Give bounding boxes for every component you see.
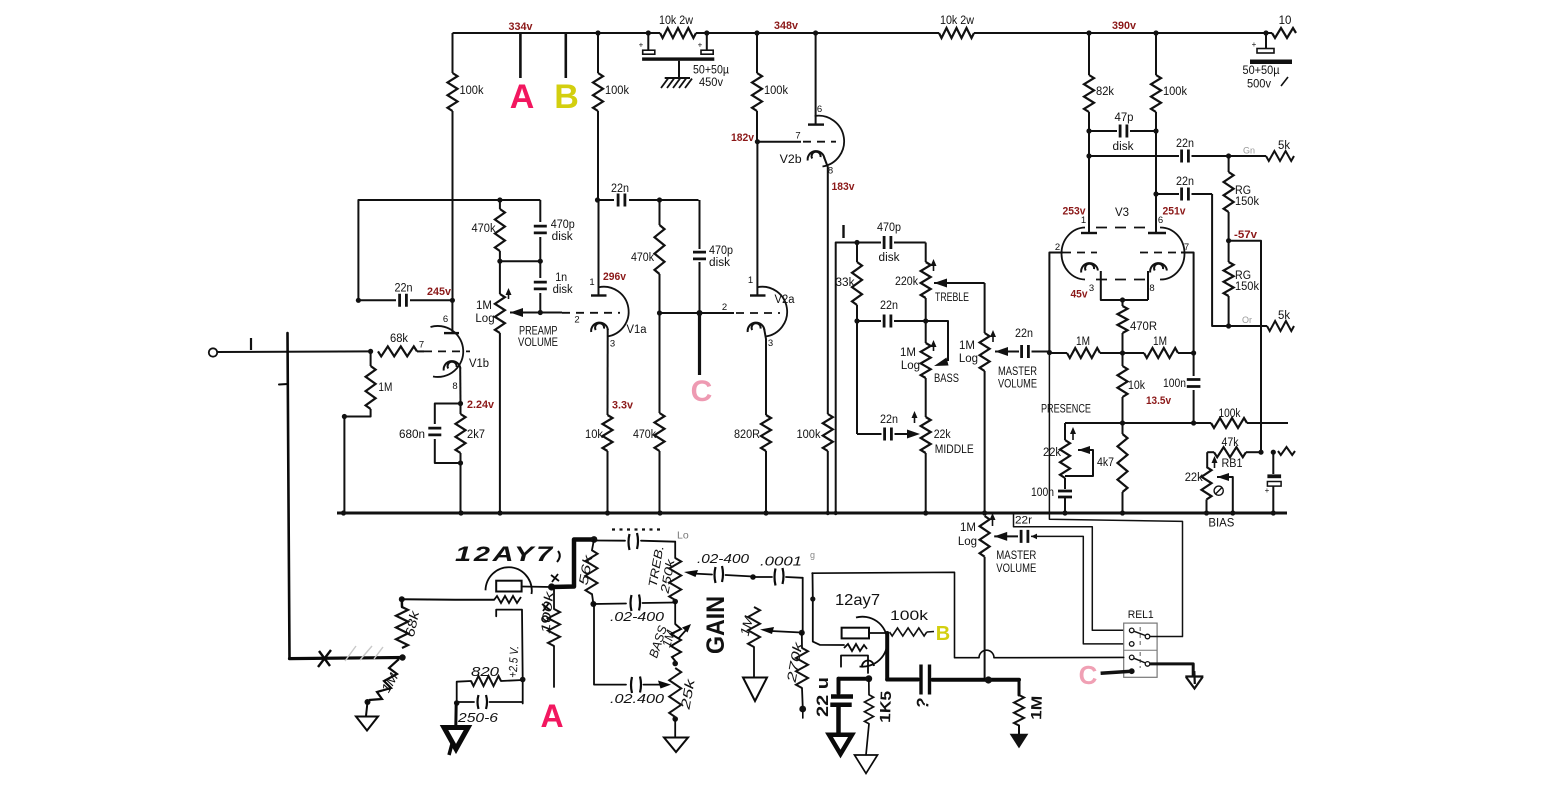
wire grid (hand): [402, 598, 494, 601]
wire treble wiper to MV: [984, 283, 986, 333]
svg-text:470p: 470p: [709, 245, 733, 257]
resistor 100k output (hand): [890, 628, 927, 636]
potentiometer 22k PRESENCE: [1064, 423, 1066, 440]
svg-text:GAIN: GAIN: [702, 596, 730, 654]
ground (hand open) gain: [753, 647, 755, 677]
wiper MV lower: [994, 532, 1007, 541]
ground (open) 1K5: [855, 755, 878, 773]
svg-text:2: 2: [1055, 242, 1060, 253]
svg-text:100k: 100k: [764, 85, 788, 97]
wire plate-feedback loop: [358, 200, 540, 300]
svg-text:1n: 1n: [555, 272, 567, 284]
svg-text:PRESENCE: PRESENCE: [1041, 404, 1091, 416]
svg-text:251v: 251v: [1163, 206, 1187, 218]
bus junction dots: [341, 510, 346, 515]
triode V3b plate: [1148, 232, 1166, 234]
node: [591, 536, 598, 543]
triode V3b cathode: [1150, 263, 1167, 272]
resistor 10k 2w (third, cut at edge): [1272, 28, 1296, 38]
svg-text:470p: 470p: [551, 219, 575, 231]
node: [1047, 350, 1052, 355]
svg-text:B: B: [936, 623, 950, 645]
potentiometer 25k (hand): [669, 668, 681, 717]
wiper MV: [995, 347, 1008, 356]
svg-text:MIDDLE: MIDDLE: [935, 444, 974, 456]
dotted label remnant: [612, 528, 664, 530]
svg-text:.02-400: .02-400: [610, 610, 664, 624]
jack contact tick: [250, 338, 252, 350]
node: [1120, 350, 1125, 355]
svg-text:470p: 470p: [877, 222, 901, 234]
node: [365, 699, 371, 705]
svg-text:1M: 1M: [378, 382, 392, 394]
capacitor .02-400 bass (hand): [631, 595, 641, 612]
wire: [836, 242, 881, 244]
resistor 270k (hand): [801, 633, 803, 648]
triode V2b envelope: [815, 116, 845, 167]
svg-text:100k: 100k: [605, 85, 629, 97]
capacitor 22n bass: [857, 320, 881, 322]
scribble mark: [318, 650, 331, 667]
wire -57v to bias feed: [1229, 241, 1261, 453]
svg-text:348v: 348v: [774, 20, 799, 32]
cathode bracket (hand): [496, 610, 521, 617]
wiper treble (hand): [684, 570, 698, 577]
triode V3a plate: [1081, 232, 1097, 234]
wire: [435, 404, 461, 425]
wire relay lower contact to ground: [1150, 664, 1193, 676]
svg-text:47p: 47p: [1115, 112, 1134, 124]
node: [672, 716, 678, 722]
wire: [659, 451, 661, 513]
node: [854, 240, 859, 245]
svg-text:50+50µ: 50+50µ: [693, 65, 729, 77]
node: [750, 574, 756, 580]
svg-text:V1b: V1b: [469, 358, 489, 370]
svg-text:disk: disk: [709, 257, 730, 269]
svg-text:+: +: [639, 41, 644, 50]
svg-text:disk: disk: [552, 231, 573, 243]
svg-text:2: 2: [574, 315, 579, 326]
svg-text:22n: 22n: [1176, 176, 1194, 188]
resistor 2k7: [456, 414, 466, 453]
wiper presence: [1078, 446, 1090, 454]
svg-text:-57v: -57v: [1234, 229, 1258, 241]
resistor 82k: [1086, 30, 1091, 35]
svg-text:.02-400: .02-400: [697, 551, 750, 566]
svg-text:5k: 5k: [1278, 310, 1290, 322]
svg-text:2.24v: 2.24v: [467, 399, 495, 411]
svg-text:250-6: 250-6: [457, 711, 498, 725]
node (hand blob): [548, 583, 555, 590]
capacitor 50+50u 450v right section lead: [704, 30, 709, 35]
triode 12ay7 envelope (hand): [856, 617, 887, 667]
wire input: [217, 350, 371, 353]
svg-text:680n: 680n: [399, 429, 425, 441]
node A tap: [519, 33, 522, 78]
node: [1258, 450, 1263, 455]
pentode V3 envelope top dashed: [1096, 227, 1150, 229]
svg-text:V1a: V1a: [627, 324, 648, 336]
wire V3 cathodes join: [1101, 271, 1148, 300]
potentiometer 1M Log MASTER VOLUME lower: [980, 516, 990, 557]
svg-text:1M: 1M: [476, 300, 492, 312]
capacitor .02-400 out (hand): [715, 566, 724, 583]
svg-text:22n: 22n: [611, 183, 629, 195]
svg-text:BIAS: BIAS: [1208, 518, 1234, 530]
svg-text:500v: 500v: [1247, 79, 1271, 91]
node: [1120, 420, 1125, 425]
resistor 470k: [495, 209, 505, 251]
wire: [756, 33, 758, 73]
wire: [925, 298, 927, 343]
wire: [366, 702, 368, 716]
wire: [660, 199, 699, 201]
pentode V3 envelope left cap: [1062, 228, 1086, 280]
resistor 5k (Gn): [1226, 153, 1231, 158]
resistor 100k plate load V1a: [593, 73, 603, 111]
svg-text:100n: 100n: [1031, 487, 1054, 499]
capacitor 22n (Gn feed): [1086, 153, 1091, 158]
potentiometer 250k TREB (hand): [674, 542, 676, 558]
svg-text:334v: 334v: [509, 21, 534, 33]
svg-text:6: 6: [817, 104, 822, 115]
wire C stub (thick): [698, 313, 701, 375]
svg-text:1: 1: [748, 275, 753, 286]
capacitor .02.400 low (hand): [631, 677, 641, 694]
node Or: [1226, 323, 1231, 328]
triode V2a plate: [750, 294, 766, 296]
wire: [597, 33, 599, 73]
resistor 1M output (hand): [1014, 695, 1024, 726]
node: [854, 318, 859, 323]
svg-text:disk: disk: [553, 284, 573, 296]
resistor 10k 2w (first dropper): [660, 28, 696, 38]
svg-text:3: 3: [768, 338, 773, 349]
potentiometer 1M Log MASTER VOLUME: [980, 333, 990, 371]
svg-text:VOLUME: VOLUME: [518, 337, 558, 349]
triode V1b grid (dashed): [424, 350, 470, 352]
resistor RG 150k upper: [1228, 156, 1230, 172]
capacitor 680n: [428, 428, 441, 435]
wire presence line to relay: [1049, 353, 1182, 637]
ground (hand) relay: [1185, 675, 1203, 677]
triode V1b cathode: [444, 361, 461, 370]
wire output row thick (hand): [933, 678, 1020, 682]
potentiometer 1M Log PREAMP VOLUME: [495, 294, 505, 333]
wire plate out (hand): [522, 586, 552, 589]
svg-text:3: 3: [610, 339, 615, 350]
wire preamp volume to ground bus: [499, 333, 501, 513]
wire C to relay: [1101, 671, 1130, 673]
svg-text:22k: 22k: [1043, 447, 1061, 459]
potentiometer 1M Log BASS: [921, 343, 931, 378]
svg-text:6: 6: [1158, 215, 1163, 226]
svg-text:10k: 10k: [1128, 380, 1145, 392]
wire grid drop (hand): [813, 573, 845, 645]
wire loop to relay (hand): [812, 572, 979, 657]
node C junction (thick): [697, 310, 703, 316]
svg-text:1M: 1M: [960, 522, 976, 534]
wire MV lower to output: [984, 557, 986, 681]
triode V1a cathode: [591, 323, 608, 332]
svg-text:Lo: Lo: [677, 530, 689, 542]
svg-text:450v: 450v: [699, 77, 723, 89]
svg-text:13.5v: 13.5v: [1146, 395, 1172, 407]
node: [399, 654, 405, 660]
svg-text:100n: 100n: [1163, 378, 1186, 390]
svg-text:150k: 150k: [1235, 196, 1259, 208]
svg-text:296v: 296v: [603, 271, 627, 283]
svg-text:82k: 82k: [1096, 86, 1114, 98]
svg-text:22 u: 22 u: [813, 677, 832, 717]
svg-text:+: +: [1265, 486, 1270, 495]
relay box: [1124, 623, 1157, 677]
capacitor 22n MV wiper: [1022, 345, 1029, 358]
node: [657, 197, 662, 202]
wire 1M to bus: [344, 409, 370, 513]
triode V2a envelope: [757, 287, 787, 337]
wire tone stack top: [836, 243, 878, 514]
node: [657, 310, 662, 315]
capacitor ? coupling (hand): [921, 665, 930, 695]
wire V3 grid left feed: [1049, 253, 1063, 353]
resistor 820 (hand): [457, 681, 471, 703]
input jack: [209, 348, 217, 356]
wire Or left to 22n: [1212, 194, 1229, 326]
svg-text:6: 6: [443, 314, 448, 325]
capacitor 22n middle: [857, 433, 882, 435]
triode 12AY7 plate box (hand): [496, 581, 521, 592]
svg-text:150k: 150k: [1235, 281, 1259, 293]
capacitor .0001 (hand): [753, 576, 772, 578]
wire output drop (hand): [1018, 680, 1021, 695]
svg-text:50+50µ: 50+50µ: [1243, 65, 1280, 77]
svg-text:RB1: RB1: [1222, 458, 1243, 470]
svg-text:820R: 820R: [734, 429, 760, 441]
wire B+ supply rail: [453, 32, 661, 34]
node 2.24v: [458, 401, 463, 406]
svg-text:1: 1: [1081, 215, 1086, 226]
triode V2b plate lead: [813, 30, 818, 35]
resistor RG 150k lower: [1228, 241, 1230, 262]
capacitor 100n presence: [1064, 478, 1066, 489]
node: [356, 298, 361, 303]
node treble-bass: [672, 599, 678, 605]
wire V2a grid (dashed): [736, 312, 780, 314]
wire ground bus: [337, 512, 1287, 515]
wire: [925, 378, 927, 417]
svg-text:A: A: [510, 78, 535, 116]
svg-text:Gn: Gn: [1243, 146, 1255, 156]
svg-text:4k7: 4k7: [1097, 457, 1114, 469]
capacitor 50+50u 450v left section lead: [646, 30, 651, 35]
resistor 100k plate load V1b: [448, 73, 458, 111]
svg-text:PREAMP: PREAMP: [519, 326, 558, 338]
resistor 1M (left): [1067, 348, 1100, 358]
capacitor 470p disk: [539, 200, 541, 222]
resistor 5k (Or): [1267, 321, 1294, 331]
resistor 1M (hand diagonal): [369, 659, 399, 700]
svg-text:Or: Or: [1242, 315, 1252, 325]
node: [368, 349, 373, 354]
node: [590, 601, 596, 607]
resistor 100k plate load V2a: [754, 30, 759, 35]
tick on drop line: [279, 383, 288, 386]
svg-text:1M: 1M: [1153, 336, 1167, 348]
capacitor 1n disk: [539, 261, 541, 278]
capacitor bias electrolytic: [1272, 452, 1274, 474]
resistor 100k (hand): [553, 588, 555, 609]
node: [1062, 510, 1067, 515]
svg-text:245v: 245v: [427, 286, 452, 298]
svg-text:1M: 1M: [1028, 696, 1046, 721]
svg-text:1M: 1M: [959, 340, 975, 352]
capacitor 50+50u 500v: [1257, 49, 1274, 54]
resistor 10k 2w (second dropper): [939, 28, 974, 38]
ground (small solid): [1018, 726, 1020, 736]
wire MV to bus: [984, 371, 986, 513]
svg-text:7: 7: [795, 131, 800, 142]
resistor 100k (bias row): [1211, 418, 1247, 428]
capacitor 470p disk treble: [884, 236, 891, 249]
svg-text:22n: 22n: [880, 300, 898, 312]
node: [454, 700, 460, 706]
svg-text:MASTER: MASTER: [998, 366, 1037, 378]
svg-text:100k: 100k: [797, 429, 821, 441]
svg-text:10k 2w: 10k 2w: [940, 15, 975, 27]
svg-text:68k: 68k: [390, 333, 408, 345]
svg-text:Log: Log: [959, 353, 978, 365]
triode V2a plate lead: [756, 142, 758, 296]
resistor 1M (right): [1144, 348, 1178, 358]
vertical 33k-to-22n branch: [856, 321, 858, 434]
triode 12AY7 grid squiggle (hand): [494, 596, 521, 603]
svg-text:TREBLE: TREBLE: [935, 292, 969, 304]
relay dashed actuator: [1139, 627, 1141, 646]
svg-text:Log: Log: [475, 313, 494, 325]
svg-text:182v: 182v: [731, 132, 755, 144]
svg-text:+: +: [1252, 40, 1257, 49]
ground (hand bold) cathode: [454, 703, 457, 727]
node -57v: [1228, 212, 1230, 241]
svg-text:V2b: V2b: [780, 154, 802, 166]
svg-text:Log: Log: [901, 360, 920, 372]
wiper treble: [934, 279, 947, 288]
svg-text:2k7: 2k7: [467, 429, 485, 441]
wire: [925, 453, 927, 513]
wire plate to 100k (hand): [869, 632, 887, 634]
triode V1a plate lead: [598, 200, 600, 296]
wire: [765, 451, 767, 513]
resistor 47k: [1214, 447, 1246, 457]
wire presence row: [1065, 422, 1211, 424]
resistor 470R: [1122, 300, 1124, 306]
potentiometer 22k MIDDLE: [921, 417, 931, 453]
triode V3a cathode: [1081, 263, 1098, 272]
resistor 68k grid stopper: [378, 346, 417, 356]
svg-text:.0001: .0001: [760, 554, 802, 569]
triode V1a plate: [591, 294, 607, 296]
wire: [827, 451, 829, 513]
svg-text:100k: 100k: [460, 85, 484, 97]
resistor 1K5 (hand): [868, 679, 870, 695]
triode V2b cathode: [808, 151, 825, 160]
wire bass2 row (hand): [594, 604, 626, 685]
capacitor 47p disk: [1086, 128, 1091, 133]
capacitor 470p disk (to C): [699, 200, 701, 249]
svg-text:45v: 45v: [1071, 289, 1089, 301]
wire (hand) left drop: [288, 333, 290, 659]
svg-text:VOLUME: VOLUME: [998, 379, 1037, 391]
capacitor 50+50u 450v plates: [643, 50, 655, 54]
svg-text:470R: 470R: [1130, 321, 1157, 333]
capacitor 250-6 (hand): [457, 701, 474, 703]
node gain junction: [799, 630, 805, 636]
wiper bass: [926, 321, 948, 361]
node: [672, 661, 678, 667]
svg-text:g: g: [810, 550, 815, 560]
svg-text:.02.400: .02.400: [610, 692, 664, 706]
svg-text:disk: disk: [879, 252, 900, 264]
svg-text:12AY7: 12AY7: [455, 543, 555, 566]
triode V2b grid (dashed): [803, 141, 836, 143]
svg-text:REL1: REL1: [1128, 609, 1154, 621]
wire bus to relay top pin: [1014, 513, 1124, 630]
triode V3b grid dashed: [1140, 252, 1181, 254]
svg-text:1M: 1M: [900, 347, 916, 359]
wire: [499, 200, 501, 209]
svg-text:BASS: BASS: [934, 373, 959, 385]
svg-text:8: 8: [1149, 283, 1154, 294]
wire bass row (hand): [593, 603, 626, 606]
svg-text:MASTER: MASTER: [996, 550, 1036, 562]
resistor 33k: [856, 243, 858, 263]
triode 12ay7 grid squiggle (hand): [844, 644, 867, 651]
svg-text:5k: 5k: [1278, 140, 1290, 152]
relay contact circles: [1129, 628, 1134, 633]
node 270k end: [799, 706, 806, 713]
svg-text:10k 2w: 10k 2w: [659, 15, 694, 27]
svg-text:1: 1: [589, 277, 594, 288]
resistor 10k cathode V1a: [603, 415, 613, 451]
svg-text:C: C: [1079, 660, 1098, 690]
svg-text:+2.5 V.: +2.5 V.: [506, 645, 522, 678]
svg-text:100k: 100k: [1163, 86, 1187, 98]
capacitor .02-400 top (hand): [596, 540, 625, 542]
svg-text:B: B: [554, 78, 579, 116]
svg-text:V3: V3: [1115, 207, 1129, 219]
node 334v rail junction: [595, 30, 600, 35]
wiper arrow preamp volume: [510, 308, 523, 317]
svg-text:2: 2: [722, 302, 727, 313]
resistor 10k (V3 tail upper): [1122, 353, 1124, 366]
svg-text:Log: Log: [958, 536, 977, 548]
ground (hatched) for 50+50u: [678, 61, 680, 78]
triode V2b plate: [808, 123, 824, 125]
wiper gain (hand): [760, 627, 774, 634]
wire: [460, 404, 462, 415]
triode V3a grid dashed: [1063, 252, 1097, 254]
resistor 56k (hand): [592, 540, 594, 551]
triode V1b plate lead: [451, 300, 453, 333]
svg-text:+: +: [698, 41, 703, 50]
wire V3 grid right feed: [1181, 253, 1194, 354]
svg-text:22n: 22n: [880, 414, 898, 426]
capacitor 100n (right grid): [1193, 353, 1195, 376]
svg-text:1M: 1M: [1076, 336, 1090, 348]
svg-text:22n: 22n: [395, 283, 413, 295]
